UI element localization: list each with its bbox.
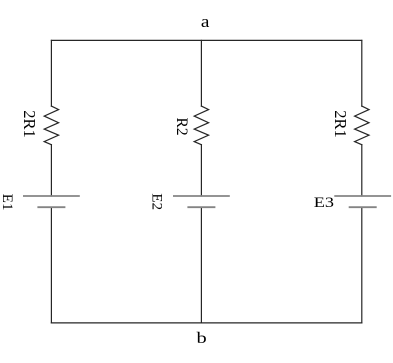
wire left branch upper	[50, 40, 52, 106]
wire middle branch middle	[200, 145, 202, 196]
wire right branch upper	[361, 40, 363, 106]
wire middle branch lower	[200, 207, 202, 323]
svg-text:E1: E1	[0, 194, 15, 211]
resistor 2R1 left	[44, 106, 58, 145]
battery E2 plate long	[173, 195, 230, 197]
resistor R2	[194, 106, 208, 145]
wire right branch lower	[361, 207, 363, 323]
svg-text:b: b	[197, 329, 207, 347]
battery E3 plate long	[334, 195, 391, 197]
svg-text:2R1: 2R1	[20, 110, 39, 138]
svg-text:E3: E3	[314, 194, 334, 211]
wire bottom rail b	[51, 322, 361, 324]
battery E1 plate short	[37, 206, 65, 208]
battery E1 plate long	[23, 195, 80, 197]
wire middle branch upper	[200, 40, 202, 106]
svg-text:R2: R2	[173, 118, 190, 136]
svg-text:E2: E2	[149, 193, 165, 210]
resistor 2R1 right	[355, 106, 369, 145]
battery E2 plate short	[187, 206, 215, 208]
battery E3 plate short	[349, 206, 377, 208]
wire left branch middle	[50, 145, 52, 196]
svg-text:2R1: 2R1	[331, 110, 350, 138]
wire left branch lower	[50, 207, 52, 323]
wire top rail a	[51, 39, 361, 41]
wire right branch middle	[361, 145, 363, 196]
svg-text:a: a	[201, 12, 210, 31]
